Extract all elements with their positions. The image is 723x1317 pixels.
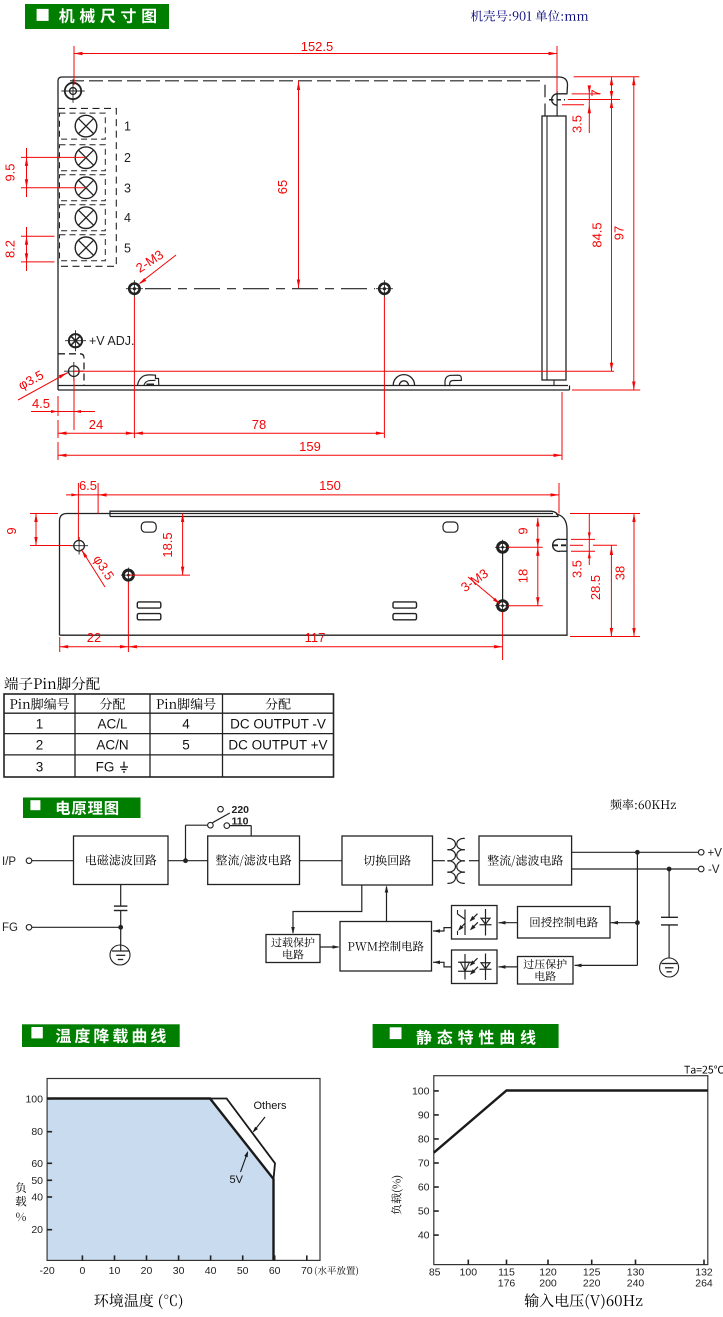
svg-text:5V: 5V [230, 1174, 244, 1186]
svg-text:78: 78 [252, 417, 266, 432]
svg-text:18: 18 [516, 569, 531, 583]
svg-text:4.5: 4.5 [32, 396, 50, 411]
svg-text:AC/L: AC/L [97, 717, 128, 732]
svg-text:97: 97 [612, 226, 627, 240]
svg-text:Others: Others [254, 1100, 288, 1112]
svg-text:50: 50 [237, 1265, 249, 1277]
svg-text:117: 117 [305, 630, 326, 645]
svg-text:65: 65 [275, 180, 290, 194]
svg-text:I/P: I/P [2, 856, 16, 868]
svg-text:3: 3 [124, 181, 131, 195]
svg-text:3: 3 [36, 760, 44, 775]
svg-text:84.5: 84.5 [590, 222, 605, 247]
svg-text:10: 10 [109, 1265, 121, 1277]
svg-text:0: 0 [79, 1265, 85, 1277]
svg-text:50: 50 [418, 1206, 430, 1218]
svg-text:80: 80 [418, 1133, 430, 1145]
svg-text:-20: -20 [40, 1265, 55, 1277]
svg-text:30: 30 [173, 1265, 185, 1277]
svg-text:28.5: 28.5 [588, 575, 603, 600]
svg-text:24: 24 [89, 417, 103, 432]
svg-text:20: 20 [141, 1265, 153, 1277]
svg-text:FG: FG [2, 922, 18, 934]
svg-text:1: 1 [36, 717, 44, 732]
svg-text:90: 90 [418, 1109, 430, 1121]
svg-text:70: 70 [301, 1265, 313, 1277]
svg-text:+V: +V [708, 848, 723, 860]
svg-text:DC OUTPUT +V: DC OUTPUT +V [228, 738, 327, 753]
svg-text:+V ADJ.: +V ADJ. [89, 334, 135, 348]
svg-text:176: 176 [498, 1278, 516, 1290]
svg-text:AC/N: AC/N [96, 738, 128, 753]
svg-text:240: 240 [627, 1278, 645, 1290]
svg-text:DC OUTPUT -V: DC OUTPUT -V [230, 717, 326, 732]
svg-text:FG: FG [96, 760, 115, 775]
svg-text:70: 70 [418, 1157, 430, 1169]
svg-text:60: 60 [269, 1265, 281, 1277]
svg-text:22: 22 [87, 630, 101, 645]
svg-text:152.5: 152.5 [301, 39, 334, 54]
svg-text:9: 9 [516, 527, 531, 534]
svg-text:100: 100 [25, 1093, 43, 1105]
svg-text:85: 85 [429, 1267, 441, 1279]
svg-text:3.5: 3.5 [569, 560, 584, 578]
svg-text:100: 100 [460, 1267, 478, 1279]
svg-text:220: 220 [232, 804, 250, 816]
svg-text:38: 38 [613, 566, 628, 580]
svg-text:-V: -V [708, 864, 720, 876]
svg-text:9: 9 [4, 527, 19, 534]
svg-text:18.5: 18.5 [160, 532, 175, 557]
svg-text:40: 40 [418, 1230, 430, 1242]
svg-text:200: 200 [539, 1278, 557, 1290]
svg-text:60: 60 [418, 1182, 430, 1194]
svg-text:2: 2 [36, 738, 44, 753]
svg-text:9.5: 9.5 [3, 163, 18, 181]
svg-text:3.5: 3.5 [570, 115, 585, 133]
svg-text:220: 220 [583, 1278, 601, 1290]
svg-text:60: 60 [31, 1158, 43, 1170]
svg-text:6.5: 6.5 [79, 478, 97, 493]
svg-text:4: 4 [182, 717, 190, 732]
svg-text:150: 150 [319, 478, 341, 493]
svg-text:4: 4 [124, 211, 131, 225]
svg-text:7: 7 [589, 89, 604, 96]
svg-text:50: 50 [31, 1175, 43, 1187]
svg-text:8.2: 8.2 [3, 240, 18, 258]
svg-text:264: 264 [695, 1278, 713, 1290]
svg-text:40: 40 [31, 1192, 43, 1204]
svg-text:100: 100 [412, 1085, 430, 1097]
svg-text:5: 5 [182, 738, 190, 753]
svg-text:80: 80 [31, 1126, 43, 1138]
svg-text:2: 2 [124, 151, 131, 165]
svg-text:5: 5 [124, 241, 131, 255]
svg-text:159: 159 [299, 439, 321, 454]
svg-text:1: 1 [124, 120, 131, 134]
svg-text:40: 40 [205, 1265, 217, 1277]
svg-text:20: 20 [31, 1224, 43, 1236]
